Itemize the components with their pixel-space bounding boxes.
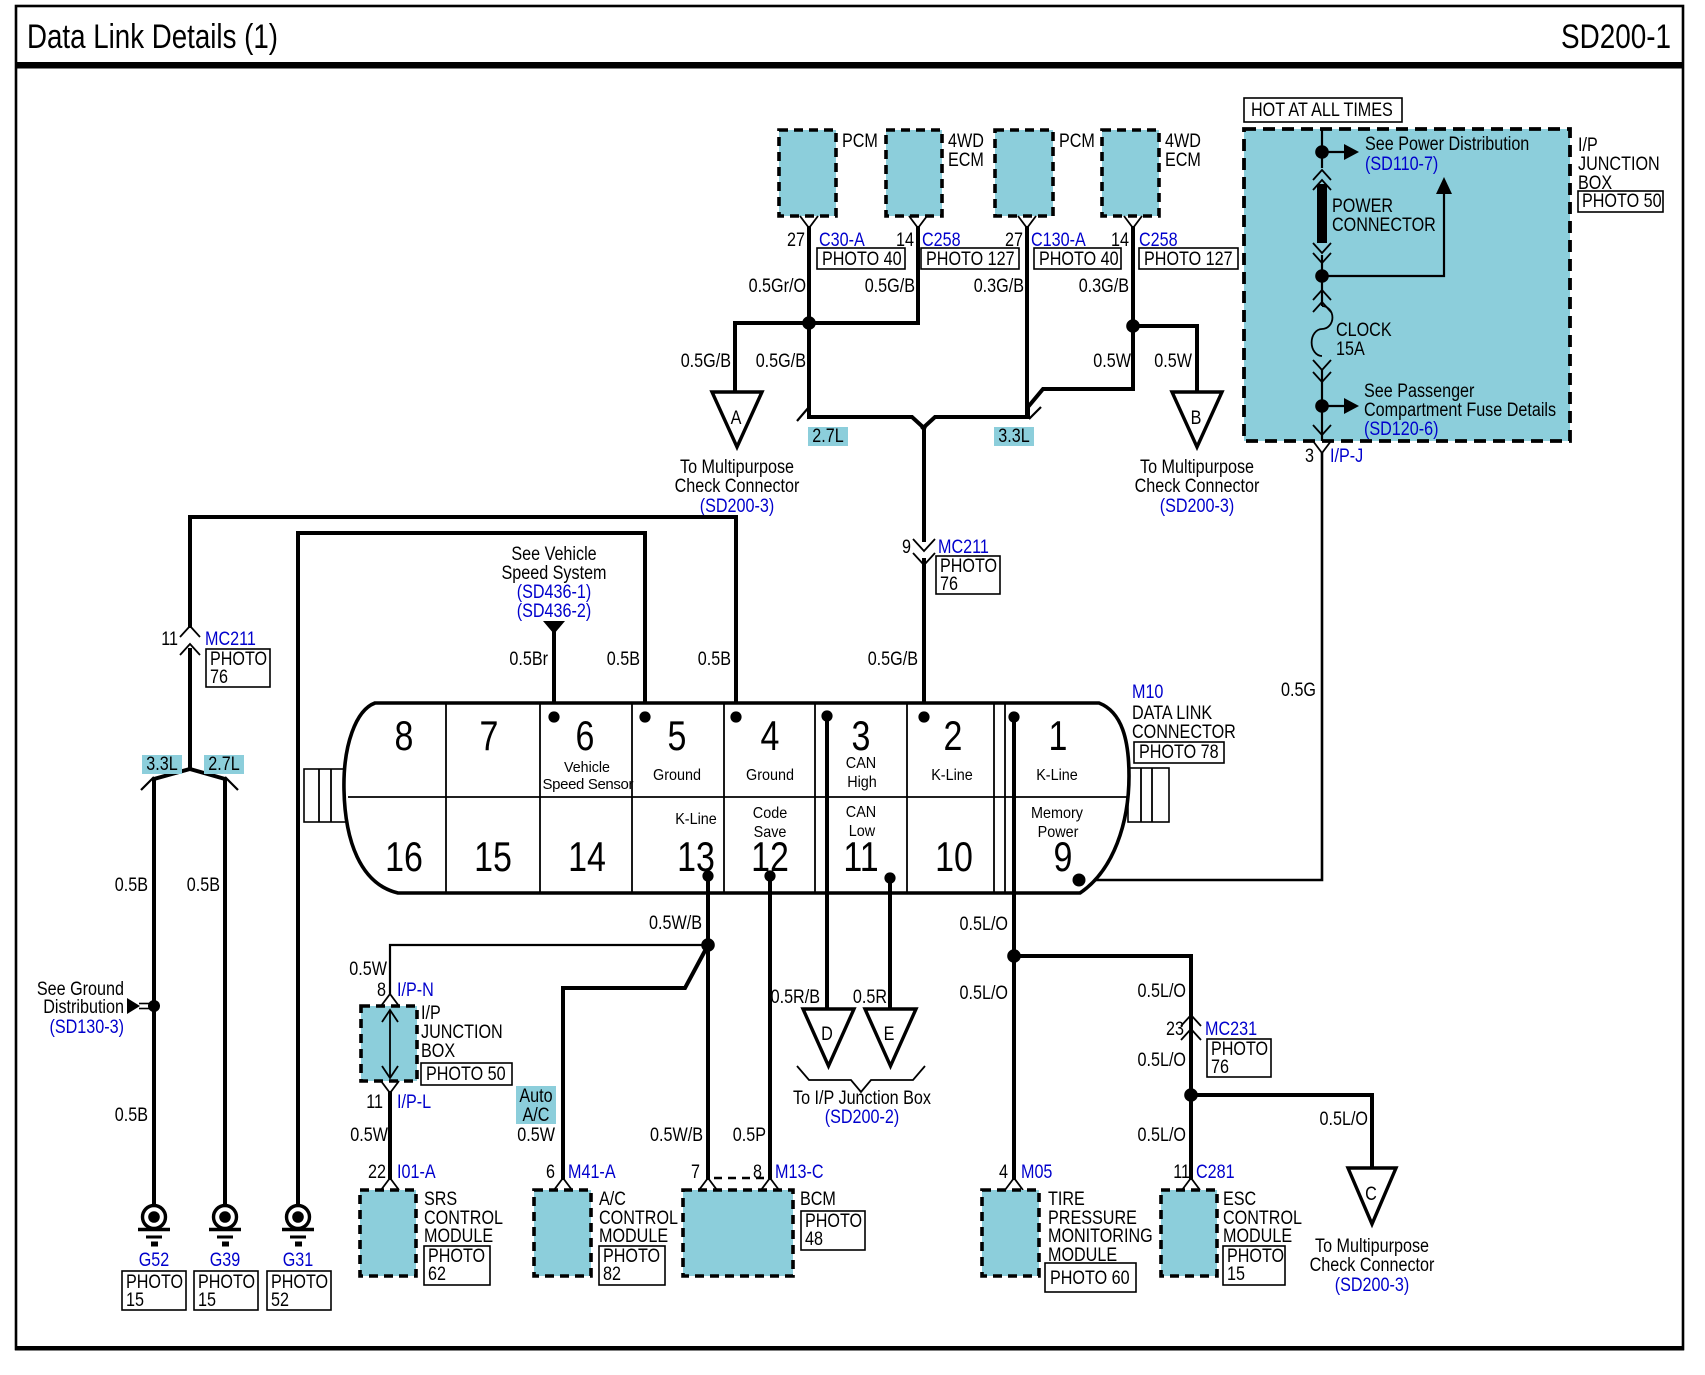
- hot at all times label: [1244, 98, 1402, 122]
- connector box PCM C130-A: [995, 130, 1053, 216]
- branch up arrow: [1322, 192, 1444, 276]
- svg-text:8: 8: [377, 980, 386, 1001]
- svg-text:G31: G31: [283, 1250, 314, 1271]
- svg-text:0.5P: 0.5P: [733, 1125, 766, 1146]
- svg-text:0.5B: 0.5B: [115, 875, 148, 896]
- svg-text:0.5B: 0.5B: [187, 875, 220, 896]
- svg-text:3: 3: [852, 712, 871, 759]
- svg-text:MODULE: MODULE: [1223, 1226, 1292, 1247]
- fuse CLOCK 15A: [1312, 306, 1333, 356]
- pin 3 I/P-J: [1313, 441, 1331, 453]
- svg-text:11: 11: [366, 1092, 383, 1113]
- ground G52: [138, 1206, 170, 1245]
- I/P junction box (fuse box): [1244, 129, 1570, 441]
- svg-text:See Vehicle: See Vehicle: [511, 544, 596, 565]
- svg-text:Auto: Auto: [519, 1086, 552, 1107]
- svg-text:Check Connector: Check Connector: [675, 476, 800, 497]
- svg-text:Ground: Ground: [653, 767, 701, 784]
- svg-text:I/P-L: I/P-L: [397, 1092, 431, 1113]
- internal arrow: [389, 1010, 391, 1078]
- junction 2.7L: [802, 316, 816, 330]
- wire pin12 0.5P down to BCM pin8: [768, 876, 772, 1178]
- junction 0.5W/B: [701, 938, 715, 952]
- pin 8 I/P-N: [381, 994, 399, 1006]
- svg-text:MC211: MC211: [938, 537, 989, 558]
- triangle A: [712, 392, 762, 447]
- ground G39: [209, 1206, 241, 1245]
- pin 6 M41-A: [554, 1178, 572, 1190]
- svg-text:0.5G: 0.5G: [1281, 680, 1316, 701]
- svg-text:A/C: A/C: [523, 1105, 550, 1126]
- svg-text:1: 1: [1049, 712, 1068, 759]
- svg-text:To Multipurpose: To Multipurpose: [680, 457, 794, 478]
- svg-text:0.5W: 0.5W: [517, 1125, 555, 1146]
- svg-text:PCM: PCM: [1059, 131, 1095, 152]
- svg-text:POWER: POWER: [1332, 196, 1393, 217]
- svg-text:0.3G/B: 0.3G/B: [974, 276, 1024, 297]
- svg-text:PHOTO 78: PHOTO 78: [1139, 742, 1219, 763]
- svg-text:I/P: I/P: [421, 1003, 441, 1024]
- svg-text:11: 11: [1173, 1162, 1190, 1183]
- svg-text:I/P-N: I/P-N: [397, 980, 434, 1001]
- junction ground distribution: [148, 1000, 160, 1012]
- svg-text:0.5B: 0.5B: [607, 649, 640, 670]
- tire pressure monitoring module: [982, 1190, 1039, 1276]
- svg-text:Data Link Details (1): Data Link Details (1): [27, 18, 278, 56]
- power connector chevrons top: [1313, 170, 1331, 180]
- pin 4 M05: [1005, 1178, 1023, 1190]
- wire branch to MC231: [1014, 956, 1191, 1178]
- svg-text:4WD: 4WD: [1165, 131, 1201, 152]
- svg-text:K-Line: K-Line: [931, 767, 973, 784]
- svg-text:27: 27: [787, 230, 805, 251]
- junction to triangle C: [1184, 1088, 1198, 1102]
- svg-text:ECM: ECM: [1165, 150, 1201, 171]
- svg-text:MONITORING: MONITORING: [1048, 1226, 1153, 1247]
- svg-text:I/P: I/P: [1578, 135, 1598, 156]
- wire branch to triangle B: [1133, 326, 1197, 392]
- svg-text:Ground: Ground: [746, 767, 794, 784]
- wire split to G39 branch: [190, 769, 225, 1204]
- svg-text:4: 4: [761, 712, 780, 759]
- svg-text:0.5B: 0.5B: [698, 649, 731, 670]
- svg-text:3.3L: 3.3L: [146, 754, 177, 775]
- junction dot 2: [1315, 269, 1329, 283]
- I/P junction box (module): [361, 1006, 417, 1081]
- svg-text:CLOCK: CLOCK: [1336, 320, 1392, 341]
- svg-text:10: 10: [935, 833, 973, 880]
- SRS control module: [360, 1190, 416, 1276]
- wire I/P-L to SRS 0.5W: [388, 1093, 392, 1178]
- connector MC211 (left) chevrons: [180, 626, 200, 637]
- BCM module: [683, 1190, 793, 1276]
- svg-text:2: 2: [944, 712, 963, 759]
- svg-text:ECM: ECM: [948, 150, 984, 171]
- triangle D: [803, 1009, 854, 1066]
- svg-text:0.5B: 0.5B: [115, 1105, 148, 1126]
- svg-text:11: 11: [843, 833, 878, 880]
- svg-text:0.5G/B: 0.5G/B: [865, 276, 915, 297]
- svg-text:4WD: 4WD: [948, 131, 984, 152]
- wire C258(2) pin14 0.3G/B: [1028, 228, 1133, 417]
- wire G31 up and over to pin5: [298, 533, 645, 1204]
- svg-text:See Power Distribution: See Power Distribution: [1365, 134, 1529, 155]
- svg-text:PCM: PCM: [842, 131, 878, 152]
- svg-text:0.5L/O: 0.5L/O: [960, 914, 1009, 935]
- svg-text:0.5L/O: 0.5L/O: [960, 983, 1009, 1004]
- label Auto A/C: [516, 1086, 556, 1124]
- svg-text:To I/P Junction Box: To I/P Junction Box: [793, 1088, 931, 1109]
- svg-text:Check Connector: Check Connector: [1310, 1255, 1435, 1276]
- svg-text:2.7L: 2.7L: [208, 754, 239, 775]
- svg-text:(SD200-2): (SD200-2): [825, 1107, 900, 1128]
- wire tick 2.7L: [797, 407, 809, 421]
- wire MC211 to M10 pin2: [922, 560, 926, 717]
- svg-text:22: 22: [368, 1162, 386, 1183]
- svg-text:M05: M05: [1021, 1162, 1052, 1183]
- svg-text:(SD200-3): (SD200-3): [1160, 496, 1235, 517]
- svg-text:HOT AT ALL TIMES: HOT AT ALL TIMES: [1251, 100, 1393, 121]
- wire 3.3L merge horizontal: [923, 417, 1027, 428]
- svg-text:JUNCTION: JUNCTION: [1578, 154, 1660, 175]
- svg-text:Distribution: Distribution: [43, 997, 124, 1018]
- arrow to See Passenger: [1322, 405, 1344, 407]
- svg-text:Compartment Fuse Details: Compartment Fuse Details: [1364, 400, 1556, 421]
- connector box 4WD ECM C258: [886, 130, 942, 216]
- svg-text:CONNECTOR: CONNECTOR: [1132, 722, 1236, 743]
- wire C130-A pin27 0.3G/B: [1025, 228, 1029, 417]
- svg-text:M41-A: M41-A: [568, 1162, 616, 1183]
- label 2.7L: [204, 755, 244, 774]
- svg-text:BCM: BCM: [800, 1189, 836, 1210]
- svg-text:0.5L/O: 0.5L/O: [1320, 1109, 1369, 1130]
- svg-text:Check Connector: Check Connector: [1135, 476, 1260, 497]
- fuse chevrons bottom: [1313, 360, 1331, 370]
- svg-text:PHOTO 127: PHOTO 127: [926, 249, 1015, 270]
- svg-text:14: 14: [1111, 230, 1129, 251]
- svg-text:SRS: SRS: [424, 1189, 457, 1210]
- svg-text:0.5Br: 0.5Br: [509, 649, 548, 670]
- svg-text:Speed System: Speed System: [502, 563, 607, 584]
- pin 11 C281: [1182, 1178, 1200, 1190]
- svg-text:(SD200-3): (SD200-3): [1335, 1275, 1410, 1296]
- junction dot 1: [1315, 145, 1329, 159]
- triangle C: [1348, 1168, 1396, 1224]
- svg-text:I01-A: I01-A: [397, 1162, 436, 1183]
- svg-text:8: 8: [753, 1162, 762, 1183]
- wire VSS to pin6 0.5Br: [552, 632, 556, 717]
- svg-text:High: High: [847, 774, 877, 791]
- svg-text:2.7L: 2.7L: [812, 426, 843, 447]
- svg-text:0.3G/B: 0.3G/B: [1079, 276, 1129, 297]
- svg-text:G39: G39: [210, 1250, 241, 1271]
- wire pin13 0.5W/B down to BCM pin7: [706, 876, 710, 1178]
- svg-text:3: 3: [1305, 446, 1314, 467]
- svg-text:MC231: MC231: [1205, 1019, 1257, 1040]
- pins 7 8 M13-C: [699, 1178, 717, 1190]
- svg-text:82: 82: [603, 1264, 621, 1285]
- svg-text:MODULE: MODULE: [599, 1226, 668, 1247]
- main bus wire: [1321, 129, 1323, 168]
- svg-text:15: 15: [1227, 1264, 1245, 1285]
- junction 3.3L: [1126, 319, 1140, 333]
- svg-text:CAN: CAN: [846, 755, 876, 772]
- svg-text:6: 6: [546, 1162, 555, 1183]
- ground G31: [282, 1206, 314, 1245]
- svg-text:0.5G/B: 0.5G/B: [868, 649, 918, 670]
- svg-text:(SD436-1): (SD436-1): [517, 582, 592, 603]
- svg-text:0.5L/O: 0.5L/O: [1138, 1050, 1187, 1071]
- power connector chevrons bottom: [1313, 243, 1331, 253]
- svg-text:7: 7: [691, 1162, 700, 1183]
- connector MC211 (center): [913, 539, 935, 551]
- svg-text:Code: Code: [753, 805, 787, 822]
- svg-text:4: 4: [999, 1162, 1008, 1183]
- svg-text:76: 76: [210, 667, 228, 688]
- svg-text:(SD110-7): (SD110-7): [1365, 154, 1438, 175]
- svg-text:(SD200-3): (SD200-3): [700, 496, 775, 517]
- connector box 4WD ECM C258(2): [1102, 130, 1159, 216]
- pin 22 I01-A: [381, 1178, 399, 1190]
- svg-text:To Multipurpose: To Multipurpose: [1315, 1236, 1429, 1257]
- svg-text:K-Line: K-Line: [675, 811, 717, 828]
- svg-text:Vehicle: Vehicle: [564, 759, 610, 776]
- wire I/P-J 0.5G down to M10 pin9: [1079, 453, 1322, 880]
- svg-text:PHOTO 40: PHOTO 40: [822, 249, 902, 270]
- svg-text:9: 9: [902, 537, 911, 558]
- svg-text:C: C: [1365, 1184, 1377, 1205]
- tick 3.3L branch: [141, 777, 154, 790]
- right tab: [1128, 768, 1169, 822]
- svg-text:CONNECTOR: CONNECTOR: [1332, 215, 1436, 236]
- junction dot 3: [1315, 399, 1329, 413]
- pin dots top row: [548, 711, 559, 722]
- svg-text:0.5G/B: 0.5G/B: [681, 351, 731, 372]
- svg-text:0.5W/B: 0.5W/B: [649, 913, 702, 934]
- svg-text:0.5R/B: 0.5R/B: [771, 987, 820, 1008]
- svg-text:15A: 15A: [1336, 339, 1365, 360]
- svg-text:0.5W/B: 0.5W/B: [650, 1125, 703, 1146]
- svg-text:DATA LINK: DATA LINK: [1132, 703, 1212, 724]
- fuse chevrons top: [1313, 290, 1331, 300]
- svg-text:0.5G/B: 0.5G/B: [756, 351, 806, 372]
- svg-text:E: E: [884, 1024, 895, 1045]
- svg-text:0.5R: 0.5R: [853, 987, 887, 1008]
- svg-text:Speed Sensor: Speed Sensor: [543, 776, 634, 793]
- svg-text:15: 15: [474, 833, 512, 880]
- svg-text:BOX: BOX: [421, 1041, 455, 1062]
- svg-text:(SD130-3): (SD130-3): [50, 1017, 125, 1038]
- wire branch to I/P-N: [390, 945, 708, 994]
- left tab: [304, 769, 348, 822]
- svg-text:SD200-1: SD200-1: [1561, 18, 1671, 56]
- svg-text:76: 76: [1211, 1057, 1229, 1078]
- svg-text:0.5W: 0.5W: [349, 959, 387, 980]
- svg-text:JUNCTION: JUNCTION: [421, 1022, 503, 1043]
- svg-text:15: 15: [198, 1290, 216, 1311]
- wire pin3 CAN High through connector: [825, 716, 829, 1009]
- svg-text:6: 6: [576, 712, 595, 759]
- wire branch to triangle A: [735, 323, 918, 392]
- svg-text:48: 48: [805, 1229, 823, 1250]
- tick 2.7L branch: [225, 777, 238, 790]
- svg-text:23: 23: [1166, 1019, 1184, 1040]
- svg-text:62: 62: [428, 1264, 446, 1285]
- wire branch to A/C module: [563, 947, 707, 1178]
- svg-text:I/P-J: I/P-J: [1330, 446, 1363, 467]
- ESC control module: [1161, 1190, 1217, 1276]
- svg-text:To Multipurpose: To Multipurpose: [1140, 457, 1254, 478]
- svg-text:PHOTO 40: PHOTO 40: [1039, 249, 1119, 270]
- svg-text:MODULE: MODULE: [424, 1226, 493, 1247]
- svg-text:0.5L/O: 0.5L/O: [1138, 1125, 1187, 1146]
- label 3.3L: [142, 755, 182, 774]
- svg-text:(SD436-2): (SD436-2): [517, 601, 592, 622]
- chevron above box bottom: [1313, 425, 1331, 435]
- svg-text:C281: C281: [1196, 1162, 1235, 1183]
- svg-text:3.3L: 3.3L: [998, 426, 1029, 447]
- svg-text:0.5W: 0.5W: [1093, 351, 1131, 372]
- svg-text:0.5L/O: 0.5L/O: [1138, 981, 1187, 1002]
- connector MC231: [1181, 1015, 1201, 1026]
- wire MC211 up and over to pin4: [190, 517, 736, 717]
- wire 2.7L merge horizontal: [809, 417, 924, 428]
- cell dividers: [445, 704, 447, 892]
- wire merged to MC211: [922, 428, 926, 540]
- triangle B: [1172, 392, 1222, 447]
- svg-text:7: 7: [480, 712, 499, 759]
- svg-text:B: B: [1191, 408, 1202, 429]
- wire tick 3.3L: [1029, 407, 1041, 419]
- svg-text:See Passenger: See Passenger: [1364, 381, 1475, 402]
- wire branch to triangle C: [1191, 1095, 1372, 1168]
- svg-text:0.5W: 0.5W: [1154, 351, 1192, 372]
- svg-text:(SD120-6): (SD120-6): [1364, 419, 1439, 440]
- svg-text:PHOTO 60: PHOTO 60: [1050, 1268, 1130, 1289]
- wire C258 pin14 0.5G/B: [916, 228, 920, 323]
- label 3.3L: [994, 427, 1034, 446]
- svg-text:ESC: ESC: [1223, 1189, 1256, 1210]
- label 2.7L: [808, 427, 848, 446]
- svg-text:11: 11: [161, 629, 178, 650]
- svg-text:PHOTO 50: PHOTO 50: [1582, 191, 1662, 212]
- svg-text:D: D: [821, 1024, 833, 1045]
- power connector bar: [1317, 184, 1327, 243]
- svg-text:PHOTO 50: PHOTO 50: [426, 1064, 506, 1085]
- wire pin1 through connector: [1012, 717, 1016, 1178]
- svg-text:PHOTO 127: PHOTO 127: [1144, 249, 1233, 270]
- triangle E: [865, 1009, 916, 1066]
- wire to I/P-J: [1321, 370, 1323, 441]
- svg-text:16: 16: [385, 833, 423, 880]
- svg-text:14: 14: [568, 833, 606, 880]
- svg-text:Memory: Memory: [1031, 805, 1083, 822]
- svg-text:A/C: A/C: [599, 1189, 626, 1210]
- svg-text:0.5W: 0.5W: [350, 1125, 388, 1146]
- svg-text:8: 8: [395, 712, 414, 759]
- svg-text:14: 14: [896, 230, 914, 251]
- svg-text:A: A: [731, 408, 742, 429]
- brace: [797, 1066, 925, 1092]
- svg-text:52: 52: [271, 1290, 289, 1311]
- wire split to G52 branch: [154, 769, 190, 1204]
- wire pin11 CAN Low to triangle E: [888, 878, 892, 1009]
- arrow to See Power Distribution: [1322, 151, 1344, 153]
- svg-text:15: 15: [126, 1290, 144, 1311]
- svg-text:5: 5: [668, 712, 687, 759]
- svg-text:K-Line: K-Line: [1036, 767, 1078, 784]
- svg-text:76: 76: [940, 574, 958, 595]
- wire C30-A pin27 0.5Gr/O: [807, 228, 811, 414]
- title rule: [16, 62, 1683, 69]
- connector box PCM C30-A: [779, 130, 836, 216]
- pin 11 I/P-L: [381, 1081, 399, 1093]
- svg-text:TIRE: TIRE: [1048, 1189, 1085, 1210]
- wire to clock fuse: [1321, 255, 1323, 306]
- svg-text:M10: M10: [1132, 682, 1163, 703]
- A/C control module: [534, 1190, 591, 1276]
- svg-text:27: 27: [1005, 230, 1023, 251]
- connector M10 body: [344, 703, 1129, 893]
- svg-text:M13-C: M13-C: [775, 1162, 824, 1183]
- wire pin1 branch junction: [1007, 949, 1021, 963]
- svg-text:0.5Gr/O: 0.5Gr/O: [749, 276, 806, 297]
- svg-text:MC211: MC211: [205, 629, 256, 650]
- svg-text:9: 9: [1054, 833, 1073, 880]
- svg-text:G52: G52: [139, 1250, 170, 1271]
- svg-text:CAN: CAN: [846, 804, 876, 821]
- pin dots bottom row: [702, 870, 713, 881]
- wire MC211 down to split: [188, 650, 192, 769]
